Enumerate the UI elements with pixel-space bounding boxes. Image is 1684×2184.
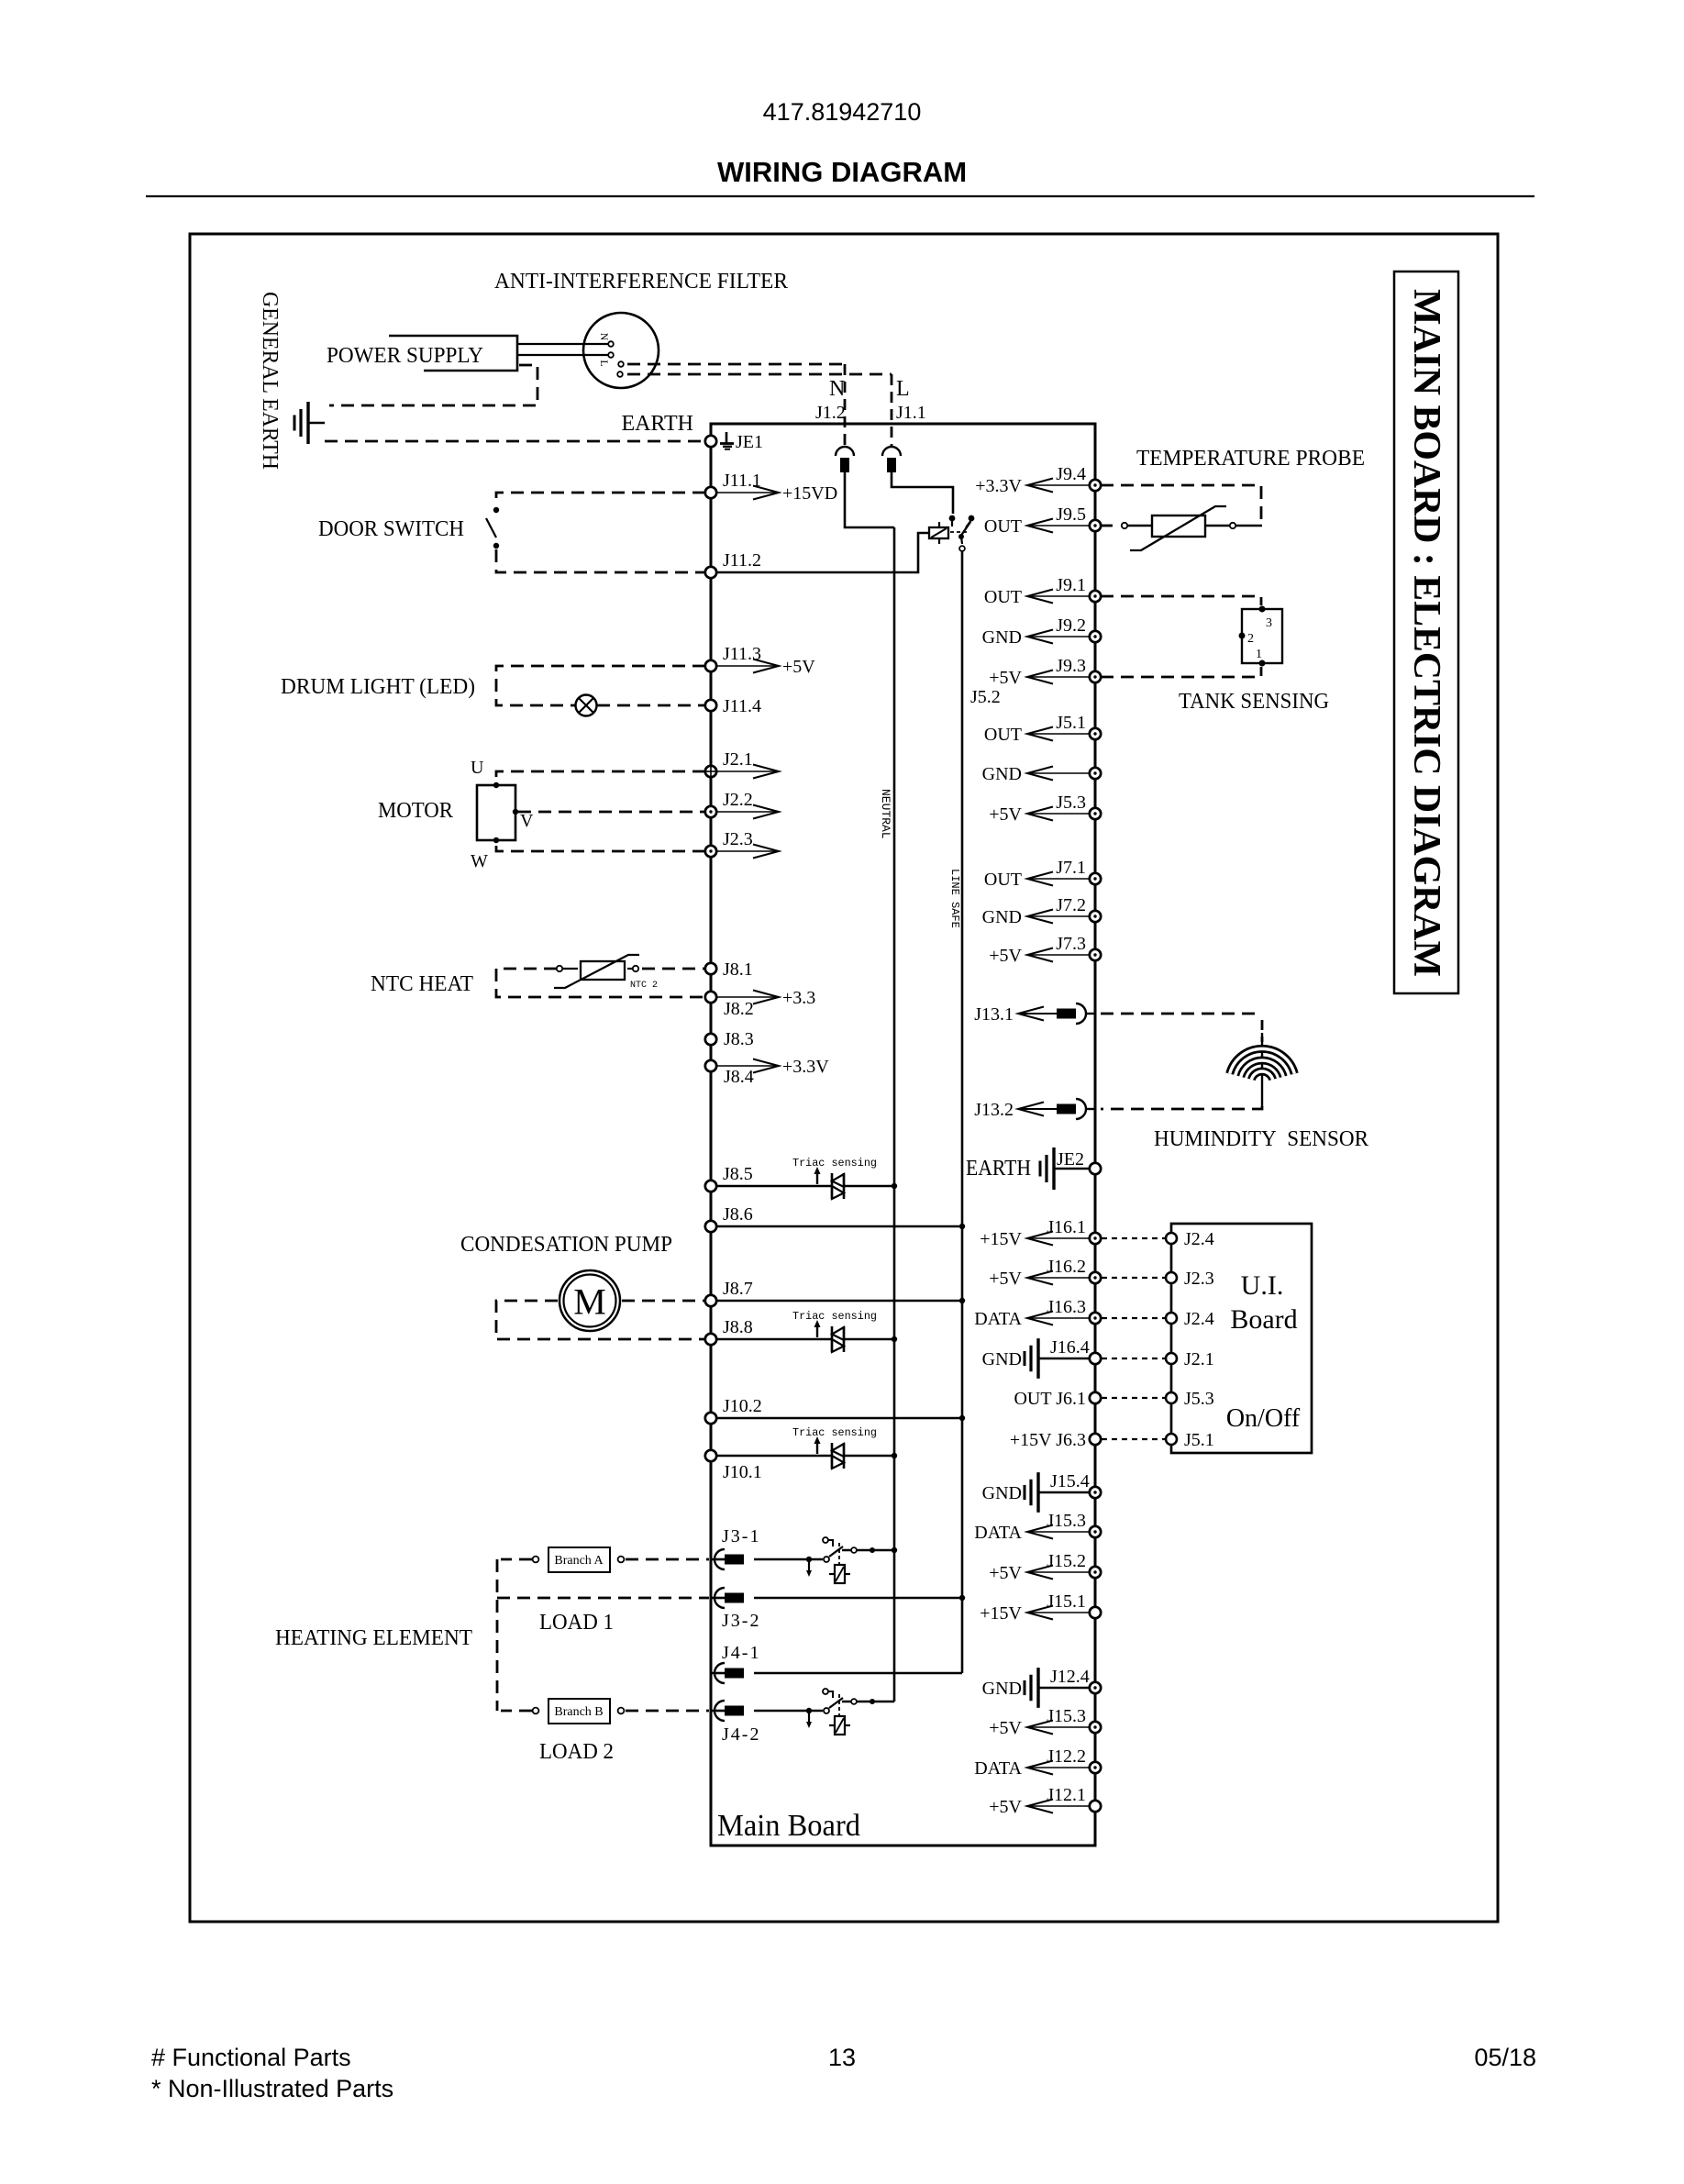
relay K1 pivot	[958, 534, 964, 539]
terminal J15.1	[1090, 1607, 1101, 1618]
wire J10.2 to line safe	[716, 1417, 962, 1420]
svg-text:J1.1: J1.1	[896, 403, 926, 423]
svg-text:Branch A: Branch A	[554, 1554, 604, 1568]
terminal J9.3	[1090, 671, 1101, 682]
wire J1.1 to relay contact	[892, 472, 953, 514]
probe left terminal	[1122, 523, 1127, 528]
svg-text:J2.3: J2.3	[1184, 1269, 1214, 1289]
svg-text:JE2: JE2	[1057, 1149, 1084, 1170]
terminal J8.4	[705, 1060, 716, 1071]
svg-text:J12.4: J12.4	[1050, 1667, 1090, 1687]
svg-text:J2.4: J2.4	[1184, 1229, 1214, 1249]
svg-text:V: V	[520, 811, 534, 831]
svg-text:GND: GND	[982, 1679, 1022, 1699]
svg-text:NTC 2: NTC 2	[630, 981, 658, 991]
terminal J9.2	[1090, 631, 1101, 642]
arrow at J16.3	[1027, 1317, 1090, 1319]
svg-text:OUT J6.1: OUT J6.1	[1014, 1389, 1086, 1409]
probe right terminal	[1230, 523, 1235, 528]
tank pin 2	[1239, 633, 1246, 639]
svg-text:J16.2: J16.2	[1047, 1257, 1086, 1277]
svg-text:J10.2: J10.2	[723, 1396, 762, 1416]
svg-text:OUT: OUT	[984, 587, 1022, 607]
dashed N drop wire	[844, 364, 847, 448]
motor pin U	[493, 782, 499, 788]
connector J13.2	[1057, 1104, 1076, 1114]
svg-text:+5V: +5V	[989, 1797, 1022, 1817]
svg-text:J2.4: J2.4	[1184, 1309, 1214, 1329]
svg-text:DATA: DATA	[974, 1309, 1022, 1329]
terminal J9.5	[1090, 520, 1101, 531]
svg-text:J5.3: J5.3	[1184, 1389, 1214, 1409]
svg-text:GENERAL EARTH: GENERAL EARTH	[258, 292, 282, 470]
dashed wire drum light to J11.4	[597, 704, 705, 707]
terminal J10.2	[705, 1413, 716, 1424]
wire power supply to filter N	[517, 343, 611, 345]
junction J3-2 line safe	[959, 1595, 965, 1601]
dashed wire J9.1 to tank	[1101, 596, 1261, 605]
dashed wire power supply to general earth	[329, 365, 537, 405]
terminal J11.1	[705, 487, 716, 498]
connector J1.1	[882, 447, 901, 456]
terminal J2.2	[705, 806, 716, 817]
svg-text:J9.3: J9.3	[1056, 656, 1086, 676]
dashed wire to ui J5.1	[1102, 1438, 1165, 1440]
branch B left terminal	[533, 1708, 539, 1714]
wire J8.5 to triac 1	[716, 1185, 831, 1188]
arrow at J13.1	[1018, 1013, 1057, 1014]
terminal J12.1	[1090, 1801, 1101, 1812]
wire power supply to filter L	[517, 354, 611, 356]
svg-text:J2.1: J2.1	[1184, 1349, 1214, 1369]
ui terminal J2.3	[1166, 1272, 1177, 1283]
junction triac 1 neutral	[892, 1183, 897, 1189]
svg-text:ANTI-INTERFERENCE FILTER: ANTI-INTERFERENCE FILTER	[494, 270, 788, 294]
svg-text:J13.2: J13.2	[974, 1100, 1014, 1120]
relay K3 fixed contact	[824, 1708, 829, 1713]
relay K2 fixed contact	[824, 1557, 829, 1562]
terminal J15.3	[1090, 1526, 1101, 1537]
svg-text:DOOR SWITCH: DOOR SWITCH	[318, 517, 464, 541]
svg-text:J5.2: J5.2	[970, 687, 1001, 707]
relay K2 actuator dashed link	[838, 1543, 840, 1567]
junction relay K2 neutral	[892, 1547, 897, 1553]
earth symbol at JE1	[726, 432, 728, 443]
svg-text:On/Off: On/Off	[1226, 1404, 1301, 1433]
dashed wire filter to N line	[627, 363, 845, 366]
arrow at J15.3	[1027, 1531, 1090, 1533]
arrow +15VD at J11.1	[716, 492, 779, 493]
svg-text:DATA: DATA	[974, 1523, 1022, 1543]
door switch S1	[493, 507, 499, 513]
relay K2 coil	[835, 1565, 845, 1583]
dashed wire J11.3 to drum light	[496, 666, 705, 705]
svg-text:J15.2: J15.2	[1047, 1551, 1086, 1571]
terminal J9.1	[1090, 591, 1101, 602]
svg-text:J9.1: J9.1	[1056, 575, 1086, 595]
dashed wire humidity sensor to J13.2	[1101, 1106, 1262, 1109]
svg-text:+5V: +5V	[989, 946, 1022, 966]
svg-text:+5V: +5V	[989, 804, 1022, 825]
svg-text:LINE SAFE: LINE SAFE	[948, 869, 961, 928]
ui terminal J5.1	[1166, 1434, 1177, 1445]
arrow at J9.2	[1027, 636, 1090, 637]
heating element branch A box	[548, 1547, 610, 1572]
filter output terminal lower	[617, 371, 623, 377]
motor pin V	[513, 809, 518, 815]
svg-text:3: 3	[1266, 616, 1272, 630]
svg-text:LOAD 2: LOAD 2	[539, 1740, 614, 1764]
relay K1 fixed contact left	[949, 516, 956, 522]
relay K1 actuator dashed link	[950, 531, 969, 533]
junction triac 2 neutral	[892, 1336, 897, 1342]
junction J10.2 line safe	[959, 1415, 965, 1421]
svg-text:EARTH: EARTH	[621, 412, 693, 436]
svg-text:J9.2: J9.2	[1056, 615, 1086, 636]
junction J4-2 sense tap	[806, 1708, 812, 1713]
svg-text:J4-1: J4-1	[722, 1643, 760, 1663]
relay K1 output contact	[959, 546, 965, 551]
connector J3-2	[711, 1597, 726, 1600]
svg-text:J13.1: J13.1	[974, 1004, 1014, 1025]
svg-text:+3.3V: +3.3V	[975, 476, 1022, 496]
svg-text:WIRING DIAGRAM: WIRING DIAGRAM	[717, 156, 967, 188]
svg-text:+5V: +5V	[989, 668, 1022, 688]
terminal J8.5	[705, 1181, 716, 1192]
svg-text:N: N	[598, 333, 611, 341]
svg-text:N: N	[829, 377, 845, 401]
svg-text:CONDESATION PUMP: CONDESATION PUMP	[460, 1233, 672, 1257]
dashed wire J2.1 to motor U	[496, 771, 705, 782]
svg-text:13: 13	[828, 2044, 856, 2071]
junction J8.6 line safe	[959, 1224, 965, 1229]
junction J3-1 sense tap	[806, 1557, 812, 1562]
svg-text:# Functional Parts: # Functional Parts	[151, 2044, 351, 2071]
arrow at J5.3	[1027, 813, 1090, 815]
svg-text:L: L	[598, 360, 611, 366]
connector J4-1	[711, 1672, 726, 1675]
wire J4-2 to relay K3	[754, 1710, 823, 1713]
relay K3 switch blade	[829, 1698, 843, 1708]
main board outline	[711, 424, 1095, 1846]
svg-text:J3-2: J3-2	[722, 1611, 760, 1631]
triac Q1	[831, 1173, 834, 1199]
dashed wire J2.2 to motor V	[518, 811, 705, 814]
branch B right terminal	[618, 1708, 625, 1714]
terminal J6.1	[1090, 1392, 1101, 1403]
svg-text:J8.4: J8.4	[724, 1067, 754, 1087]
terminal J8.6	[705, 1221, 716, 1232]
terminal J7.2	[1090, 911, 1101, 922]
svg-text:J2.1: J2.1	[723, 749, 753, 770]
arrow at J16.1	[1027, 1237, 1090, 1239]
relay K3 coil	[835, 1716, 845, 1735]
svg-text:M: M	[573, 1281, 606, 1323]
svg-text:J5.1: J5.1	[1056, 713, 1086, 733]
relay K1 coil	[929, 527, 948, 538]
dashed wire J9.5 stub	[1100, 525, 1118, 527]
arrow +3.3V at J8.4	[716, 1065, 779, 1067]
svg-text:J7.2: J7.2	[1056, 895, 1086, 915]
dashed wire door switch to J11.2	[496, 549, 705, 572]
svg-text:Triac sensing: Triac sensing	[792, 1310, 877, 1323]
terminal J16.3	[1090, 1313, 1101, 1324]
wire probe right	[1205, 525, 1230, 527]
relay K1 switch blade	[960, 522, 970, 537]
arrow at J12.1	[1027, 1805, 1090, 1807]
svg-text:GND: GND	[982, 907, 1022, 927]
junction triac 3 neutral	[892, 1453, 897, 1458]
arrow at J7.1	[1027, 878, 1090, 880]
svg-text:J16.4: J16.4	[1050, 1337, 1090, 1358]
dashed wire J9.3 to tank	[1101, 667, 1261, 677]
terminal J5.3	[1090, 808, 1101, 819]
dashed wire branch A to common	[501, 1558, 532, 1561]
svg-text:J2.3: J2.3	[723, 829, 753, 849]
svg-text:MAIN BOARD : ELECTRIC DIAGRAM: MAIN BOARD : ELECTRIC DIAGRAM	[1405, 289, 1447, 977]
dashed earth wire to JE1	[325, 440, 705, 443]
branch A left terminal	[533, 1557, 539, 1563]
svg-text:+5V: +5V	[989, 1269, 1022, 1289]
terminal J2.3	[705, 846, 716, 857]
terminal J8.3	[705, 1034, 716, 1045]
diagram border frame	[190, 234, 1498, 1922]
svg-text:+15V J6.3: +15V J6.3	[1010, 1430, 1086, 1450]
svg-text:GND: GND	[982, 627, 1022, 648]
svg-text:J11.4: J11.4	[723, 696, 761, 716]
junction J8.7 line safe	[959, 1298, 965, 1303]
wire J8.7 to line safe	[716, 1300, 962, 1303]
terminal J16.2	[1090, 1272, 1101, 1283]
wire triac 2 to neutral	[845, 1338, 894, 1341]
dashed wire J9.4 to probe	[1101, 485, 1261, 523]
svg-text:J12.1: J12.1	[1047, 1785, 1086, 1805]
motor M1 box	[477, 785, 515, 840]
svg-text:U: U	[471, 758, 484, 778]
svg-text:+15V: +15V	[980, 1229, 1022, 1249]
svg-text:+15VD: +15VD	[782, 483, 837, 504]
motor pin W	[493, 837, 499, 843]
relay K2 switch blade	[829, 1547, 843, 1557]
arrow +3.3 at J8.2	[716, 996, 779, 998]
neutral rail	[893, 527, 896, 1702]
terminal J12.2	[1090, 1762, 1101, 1773]
tank pin 1	[1259, 660, 1266, 667]
tank sensing box	[1242, 609, 1282, 663]
svg-text:J16.1: J16.1	[1047, 1217, 1086, 1237]
dashed wire pump to J8.7	[622, 1300, 705, 1303]
svg-text:W: W	[471, 851, 488, 871]
svg-text:417.81942710: 417.81942710	[763, 98, 922, 126]
arrow +5V at J11.3	[716, 665, 779, 667]
svg-text:NEUTRAL: NEUTRAL	[879, 789, 892, 839]
arrow at GND	[1027, 772, 1090, 774]
dashed wire branch B to common	[501, 1710, 532, 1713]
terminal J15.3	[1090, 1722, 1101, 1733]
svg-text:1: 1	[1256, 648, 1262, 661]
terminal J12.4	[1090, 1682, 1101, 1693]
arrow at J2.1	[716, 770, 779, 772]
svg-text:NTC HEAT: NTC HEAT	[371, 972, 473, 996]
svg-text:J7.3: J7.3	[1056, 934, 1086, 954]
dashed wire J11.1 to door switch	[496, 493, 705, 505]
svg-text:+3.3V: +3.3V	[782, 1057, 829, 1077]
dashed wire filter to L line	[627, 373, 892, 376]
svg-text:J8.3: J8.3	[724, 1029, 754, 1049]
ui terminal J2.4	[1166, 1233, 1177, 1244]
svg-text:J8.2: J8.2	[724, 999, 754, 1019]
terminal JE1	[705, 436, 716, 447]
svg-text:TEMPERATURE PROBE: TEMPERATURE PROBE	[1136, 447, 1365, 471]
svg-text:Branch B: Branch B	[554, 1705, 603, 1719]
filter terminal N	[608, 341, 614, 347]
svg-text:2: 2	[1247, 632, 1254, 646]
dashed wire J8.1 to NTC	[642, 968, 705, 970]
dashed heating common vertical wire	[496, 1559, 499, 1711]
power supply cable shape	[389, 336, 517, 371]
tank pin 3	[1259, 606, 1266, 613]
svg-text:J8.7: J8.7	[723, 1279, 753, 1299]
dashed wire to ui J2.4	[1102, 1237, 1165, 1239]
wire J8.8 to triac 2	[716, 1338, 831, 1341]
svg-text:J15.3: J15.3	[1047, 1706, 1086, 1726]
dashed wire to ui J5.3	[1102, 1397, 1165, 1399]
svg-text:HUMINDITY SENSOR: HUMINDITY SENSOR	[1154, 1127, 1368, 1151]
relay K3 actuator dashed link	[838, 1694, 840, 1718]
svg-text:J12.2: J12.2	[1047, 1746, 1086, 1767]
triac Q3	[831, 1443, 834, 1469]
arrow at J9.4	[1027, 484, 1090, 486]
terminal J11.4	[705, 700, 716, 711]
svg-text:+5V: +5V	[782, 657, 815, 677]
general earth ground symbol	[306, 402, 309, 444]
relay K2 upper contact	[823, 1537, 828, 1543]
terminal J16.1	[1090, 1233, 1101, 1244]
svg-text:OUT: OUT	[984, 870, 1022, 890]
anti-interference filter circle	[583, 313, 659, 388]
filter output terminal upper	[618, 361, 624, 367]
svg-text:J11.2: J11.2	[723, 550, 761, 571]
arrow at J9.1	[1027, 595, 1090, 597]
svg-text:J1.2: J1.2	[815, 403, 846, 423]
svg-text:GND: GND	[982, 1483, 1022, 1503]
arrow at J2.3	[716, 850, 779, 852]
svg-text:OUT: OUT	[984, 516, 1022, 537]
svg-text:J4-2: J4-2	[722, 1724, 760, 1745]
terminal J2.1	[705, 766, 716, 777]
wire triac 3 to neutral	[845, 1455, 894, 1458]
arrow at J7.3	[1027, 954, 1090, 956]
svg-text:J8.6: J8.6	[723, 1204, 753, 1225]
banner box MAIN BOARD : ELECTRIC DIAGRAM	[1394, 272, 1458, 993]
svg-text:J15.4: J15.4	[1050, 1471, 1090, 1491]
dashed wire NTC to J8.2	[496, 969, 705, 997]
svg-text:J16.3: J16.3	[1047, 1297, 1086, 1317]
arrow at J2.2	[716, 811, 779, 813]
svg-text:DRUM LIGHT (LED): DRUM LIGHT (LED)	[281, 675, 475, 699]
svg-text:TANK SENSING: TANK SENSING	[1179, 690, 1329, 714]
earth symbol at J16.4	[1036, 1338, 1039, 1379]
svg-text:J5.3: J5.3	[1056, 793, 1086, 813]
arrow at J15.3	[1027, 1726, 1090, 1728]
dashed wire to ui J2.3	[1102, 1277, 1165, 1279]
svg-text:HEATING ELEMENT: HEATING ELEMENT	[275, 1626, 472, 1650]
svg-text:J11.1: J11.1	[723, 471, 761, 491]
ui terminal J2.1	[1166, 1353, 1177, 1364]
arrow at J15.2	[1027, 1571, 1090, 1573]
connector J1.2	[836, 447, 854, 456]
terminal J7.1	[1090, 873, 1101, 884]
wire J8.6 to line safe	[716, 1225, 962, 1228]
arrow at J9.3	[1027, 676, 1090, 678]
svg-text:GND: GND	[982, 764, 1022, 784]
terminal J15.2	[1090, 1567, 1101, 1578]
svg-text:05/18: 05/18	[1474, 2044, 1536, 2071]
title underline rule	[146, 195, 1534, 197]
svg-text:J11.3: J11.3	[723, 644, 761, 664]
svg-text:J8.5: J8.5	[723, 1164, 753, 1184]
wire J3-2 to line safe	[754, 1597, 962, 1600]
relay K1 fixed contact right	[969, 516, 975, 522]
terminal J5.1	[1090, 728, 1101, 739]
terminal JE2	[1090, 1163, 1101, 1174]
terminal J15.4	[1090, 1487, 1101, 1498]
earth symbol at J15.4	[1036, 1472, 1039, 1513]
arrow at J5.1	[1027, 733, 1090, 735]
svg-text:JE1: JE1	[736, 432, 763, 452]
dashed wire to ui J2.1	[1102, 1358, 1165, 1359]
wire triac 1 to neutral	[845, 1185, 894, 1188]
dashed wire J13.1 to humidity sensor	[1101, 1013, 1262, 1015]
svg-text:Main Board: Main Board	[717, 1809, 860, 1843]
svg-text:J3-1: J3-1	[722, 1526, 760, 1547]
triac Q2	[831, 1326, 834, 1352]
svg-text:GND: GND	[982, 1349, 1022, 1369]
ui terminal J2.4	[1166, 1313, 1177, 1324]
svg-text:POWER SUPPLY: POWER SUPPLY	[327, 344, 483, 368]
connector J4-2	[711, 1710, 726, 1713]
temperature probe thermistor RT1	[1152, 516, 1205, 537]
terminal J11.2	[705, 567, 716, 578]
heating element branch B box	[548, 1699, 610, 1724]
terminal J11.3	[705, 660, 716, 671]
terminal J8.7	[705, 1295, 716, 1306]
arrow at J7.2	[1027, 915, 1090, 917]
svg-text:+3.3: +3.3	[782, 988, 815, 1008]
ntc heat thermistor RT2	[633, 966, 638, 971]
svg-text:+5V: +5V	[989, 1718, 1022, 1738]
wire J10.1 to triac 3	[716, 1455, 831, 1458]
wire probe left	[1127, 525, 1152, 527]
svg-text:J9.5: J9.5	[1056, 504, 1086, 525]
svg-text:J10.1: J10.1	[723, 1462, 762, 1482]
svg-text:Triac sensing: Triac sensing	[792, 1157, 877, 1170]
wire relay K2 to neutral	[842, 1549, 894, 1551]
svg-text:J8.8: J8.8	[723, 1317, 753, 1337]
svg-text:J2.2: J2.2	[723, 790, 753, 810]
svg-text:U.I.: U.I.	[1241, 1270, 1284, 1301]
svg-text:J5.1: J5.1	[1184, 1430, 1214, 1450]
connector J3-1	[711, 1558, 726, 1561]
terminal J7.3	[1090, 949, 1101, 960]
svg-text:* Non-Illustrated Parts: * Non-Illustrated Parts	[151, 2075, 393, 2102]
dashed wire J2.3 to motor W	[496, 843, 705, 851]
svg-text:J9.4: J9.4	[1056, 464, 1086, 484]
svg-text:J7.1: J7.1	[1056, 858, 1086, 878]
svg-text:+15V: +15V	[980, 1603, 1022, 1624]
condensation pump motor M2	[559, 1270, 620, 1331]
wire probe to elbow	[1235, 525, 1262, 527]
